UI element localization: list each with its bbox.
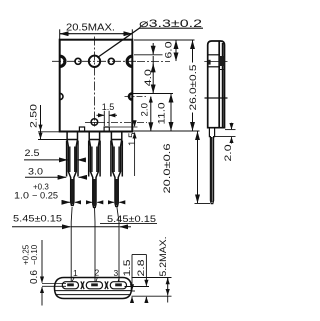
svg-text:11.0: 11.0 bbox=[156, 103, 166, 125]
right side dims of bottom view bbox=[132, 277, 172, 279]
0.6 dimension (left of bottom view) bbox=[42, 282, 66, 284]
small circle right bbox=[108, 58, 114, 64]
svg-text:2: 2 bbox=[95, 268, 100, 278]
svg-text:1.0: 1.0 bbox=[14, 191, 29, 202]
svg-text:5.45±0.15: 5.45±0.15 bbox=[13, 213, 62, 223]
svg-text:5.45±0.15: 5.45±0.15 bbox=[107, 214, 156, 224]
bottom edge bumps bbox=[79, 127, 84, 132]
svg-text:1.5: 1.5 bbox=[127, 133, 137, 147]
2.0 dimension (side lead shoulder) bbox=[215, 136, 236, 138]
lead dark thin parts bbox=[72, 179, 116, 206]
svg-text:2.0: 2.0 bbox=[223, 145, 233, 162]
dia 3.3 underline bbox=[139, 27, 203, 29]
svg-text:− 0.25: − 0.25 bbox=[32, 191, 58, 201]
horizontal centerline through hole row bbox=[52, 60, 137, 62]
bottom ext line bbox=[134, 130, 200, 132]
5.45 pitch dimension row bbox=[70, 207, 73, 282]
svg-text:20.5MAX.: 20.5MAX. bbox=[66, 23, 115, 34]
svg-text:26.0±0.5: 26.0±0.5 bbox=[188, 65, 198, 111]
front view body outline bbox=[60, 40, 133, 132]
vertical centerline through hole bbox=[94, 37, 96, 128]
left edge notch circle (top) bbox=[60, 56, 65, 66]
mounting hole bbox=[89, 56, 100, 67]
svg-text:3.0: 3.0 bbox=[28, 167, 43, 177]
1.5 dim bbox=[131, 255, 133, 291]
2.8 dim bbox=[145, 255, 147, 286]
notch top ext line bbox=[133, 93, 174, 95]
centerline dashes at right mid notch bbox=[125, 96, 147, 98]
svg-text:3: 3 bbox=[114, 268, 119, 278]
5.2 dim bbox=[167, 278, 169, 282]
svg-text:−0.10: −0.10 bbox=[30, 244, 39, 265]
side lead bbox=[209, 128, 214, 204]
lead 2 bbox=[89, 132, 100, 208]
1.5 bump dimension (bottom gate) bbox=[103, 111, 105, 126]
right edge notch circle (top) bbox=[127, 56, 132, 66]
svg-text:2.0: 2.0 bbox=[140, 103, 150, 117]
svg-text:4.0: 4.0 bbox=[143, 69, 153, 86]
svg-text:0.6: 0.6 bbox=[29, 270, 40, 284]
lead 3 bbox=[111, 132, 122, 207]
2.0 dim line (small circle offset) bbox=[150, 97, 152, 104]
svg-text:2.8: 2.8 bbox=[136, 260, 146, 277]
centerline ext bbox=[137, 60, 170, 62]
2.50 dimension (left, shoulder height) bbox=[38, 139, 68, 141]
4.0 dim line bbox=[152, 43, 154, 54]
small circle left bbox=[75, 58, 81, 64]
svg-text:1.5: 1.5 bbox=[102, 102, 115, 112]
lead inner shading lines bbox=[70, 147, 119, 173]
left edge small notch (mid) bbox=[60, 93, 63, 99]
top ext line bbox=[134, 39, 195, 41]
pin number leader ticks bbox=[72, 277, 75, 281]
26.0 dim line bbox=[192, 41, 194, 47]
20.0 dimension (lead length) bbox=[195, 203, 211, 205]
right edge small notch (mid) bbox=[129, 93, 132, 99]
3.0 dimension (lead base width) bbox=[25, 176, 66, 178]
svg-text:2.5: 2.5 bbox=[25, 148, 40, 158]
leader line for hole dia bbox=[97, 27, 140, 57]
1.0 +0.3-0.25 dimension (lead tip thickness) bbox=[62, 201, 70, 203]
lead 1 bbox=[67, 132, 78, 206]
1.5 bump height dim (right of package bottom) bbox=[110, 126, 138, 128]
svg-text:1: 1 bbox=[73, 268, 78, 278]
svg-text:1.5: 1.5 bbox=[122, 260, 132, 277]
dashed ext from small circle to 2.0 dim bbox=[98, 121, 147, 123]
svg-text:6.0: 6.0 bbox=[163, 42, 173, 59]
hole top ext line bbox=[134, 54, 163, 56]
svg-text:⌀3.3±0.2: ⌀3.3±0.2 bbox=[139, 18, 202, 30]
11.0 dim line bbox=[170, 94, 172, 100]
lead sections bbox=[62, 281, 126, 289]
20.5MAX dimension bbox=[59, 29, 61, 39]
svg-text:20.0±0.6: 20.0±0.6 bbox=[162, 144, 172, 194]
6.0 dim line bbox=[175, 40, 177, 44]
2.5 dimension (lead upper width) bbox=[24, 159, 68, 161]
small circle above bottom edge bbox=[91, 119, 98, 126]
svg-text:5.2MAX.: 5.2MAX. bbox=[158, 237, 168, 277]
svg-text:2.50: 2.50 bbox=[28, 104, 38, 128]
